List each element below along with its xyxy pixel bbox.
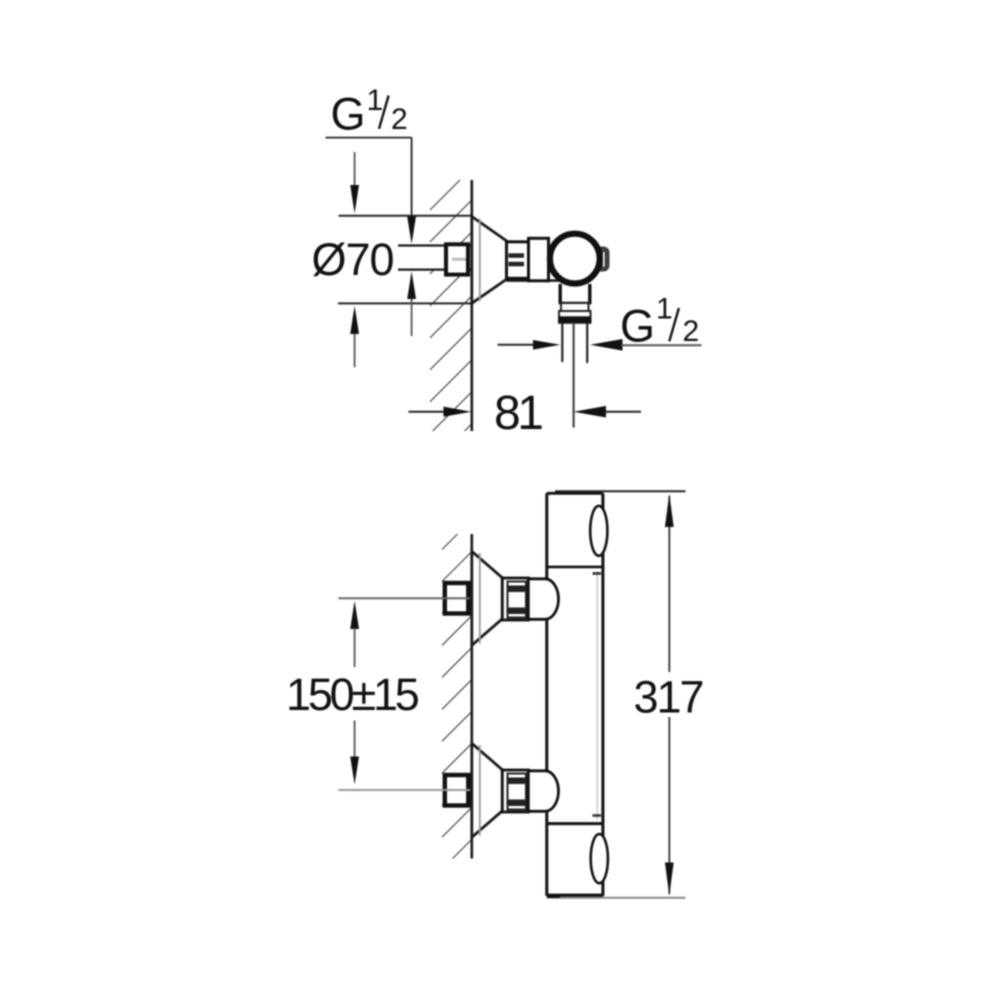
svg-text:81: 81 xyxy=(494,387,542,440)
svg-text:1: 1 xyxy=(367,84,384,117)
svg-text:G: G xyxy=(620,301,655,352)
svg-text:150±15: 150±15 xyxy=(286,669,419,720)
svg-text:2: 2 xyxy=(391,103,408,136)
svg-text:Ø70: Ø70 xyxy=(312,234,394,285)
svg-text:G: G xyxy=(331,89,366,140)
svg-text:317: 317 xyxy=(634,672,703,723)
svg-text:2: 2 xyxy=(683,315,700,348)
svg-text:1: 1 xyxy=(656,293,673,326)
